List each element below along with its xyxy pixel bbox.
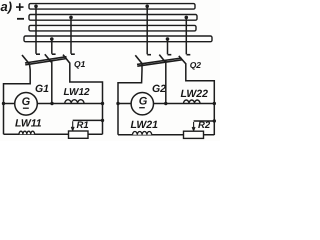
node: junction Q2 pole3 / - bar xyxy=(185,16,189,20)
wire Q2 pole3 drop from - bar xyxy=(185,17,187,54)
winding LW22 (coil) xyxy=(184,100,201,103)
wire Q2 pole1 drop from + bar xyxy=(146,6,148,54)
R2 slider arrow xyxy=(192,122,195,131)
busbar 4 (equalizer) xyxy=(24,36,212,42)
wire Q1 pole2 to armature bus xyxy=(51,61,53,104)
winding LW21 (coil) xyxy=(133,132,152,135)
node: junction Q2 pole2 / bar 4 xyxy=(166,37,170,41)
wire right armature bus xyxy=(118,103,214,105)
switch Q1 (3-pole knife switch) xyxy=(22,54,75,65)
wire Q1 pole2 drop from bar 4 xyxy=(51,39,53,54)
svg-text:Q2: Q2 xyxy=(190,60,202,70)
node: tap / right rail xyxy=(101,119,104,122)
node: junction pole3 / - bar xyxy=(69,16,73,20)
svg-text:LW22: LW22 xyxy=(181,88,209,100)
node: pole2 / armature xyxy=(50,102,53,105)
node: right rail / armature xyxy=(101,102,104,105)
wire Q2 pole2 to armature bus xyxy=(165,61,167,104)
resistor R2 (box) xyxy=(184,131,204,138)
resistor R1 (box) xyxy=(69,131,89,138)
wire Q2 pole1 to left rail xyxy=(118,64,142,135)
wire Q2 pole3 elbow to right rail xyxy=(186,63,215,135)
svg-text:LW21: LW21 xyxy=(131,119,159,131)
node: right rail / armature xyxy=(213,102,216,105)
wire right bottom xyxy=(118,134,214,136)
node: Q2 pole2 / armature xyxy=(164,102,167,105)
busbar 3 xyxy=(29,25,196,31)
wire Q1 pole1 drop from + bar xyxy=(35,6,37,54)
svg-text:G: G xyxy=(22,96,31,108)
node: left rail / armature xyxy=(2,102,5,105)
busbar - (bar 2) xyxy=(29,15,197,21)
svg-text:G: G xyxy=(139,95,148,107)
node: R2 tap / right rail xyxy=(213,119,216,122)
generator G1 (circle with G) xyxy=(15,93,38,116)
winding LW12 (coil) xyxy=(65,100,84,104)
svg-text:R2: R2 xyxy=(198,120,211,131)
node: junction pole2 / bar 4 xyxy=(50,37,54,41)
svg-text:G1: G1 xyxy=(35,83,49,95)
node: junction pole1 / + bar xyxy=(34,5,38,9)
node: right unit left rail / armature xyxy=(116,102,119,105)
svg-text:Q1: Q1 xyxy=(74,59,86,69)
wire R2 tap to right rail xyxy=(194,120,215,122)
generator G2 (circle with G) xyxy=(131,93,153,115)
label - (minus bar) xyxy=(17,18,24,20)
svg-text:LW12: LW12 xyxy=(64,87,91,98)
svg-text:a): a) xyxy=(1,0,13,14)
wire Q1 pole1 to left rail xyxy=(4,63,31,134)
svg-text:+: + xyxy=(15,0,24,16)
svg-text:R1: R1 xyxy=(77,120,89,131)
node: junction Q2 pole1 / + bar xyxy=(145,5,149,9)
wire left armature bus xyxy=(4,103,103,105)
wire Q1 pole3 drop from - bar xyxy=(70,17,72,53)
switch Q2 (3-pole knife switch) xyxy=(135,55,190,67)
svg-text:G2: G2 xyxy=(152,83,166,95)
wire left bottom xyxy=(4,133,103,135)
wire Q1 pole3 elbow to right rail xyxy=(70,63,103,135)
winding LW11 (coil) xyxy=(19,131,35,134)
wire R1 tap to right rail xyxy=(73,119,103,121)
svg-text:LW11: LW11 xyxy=(15,117,42,129)
R1 slider arrow xyxy=(71,121,74,130)
busbar + (bar 1) xyxy=(29,4,195,10)
wire Q2 pole2 drop from bar 4 xyxy=(167,39,169,54)
